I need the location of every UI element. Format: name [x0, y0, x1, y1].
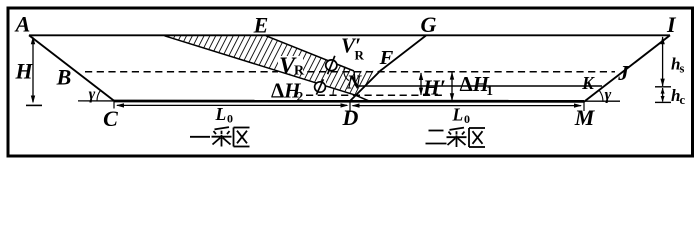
svg-text:F: F: [379, 47, 394, 69]
dimension H' arrow: [420, 73, 422, 95]
svg-text:γ: γ: [89, 86, 96, 103]
svg-text:H: H: [14, 59, 33, 84]
tick hs/hc: [655, 86, 671, 88]
long dashed line: [85, 71, 615, 73]
seam thin line: [78, 100, 620, 102]
hatch upper boundary line E: [266, 36, 354, 71]
label phi lower (drawn): [315, 79, 326, 94]
white boxes under labels: [278, 56, 337, 91]
svg-text:s: s: [680, 62, 685, 76]
svg-text:ΔH: ΔH: [460, 72, 490, 96]
short dashed line: [306, 94, 446, 96]
hatched zone polygon: [165, 36, 381, 95]
svg-text:c: c: [680, 93, 686, 107]
dimension L0 first: [117, 104, 347, 106]
svg-text:0: 0: [464, 112, 470, 126]
svg-text:M: M: [574, 105, 596, 130]
segment to N: [354, 71, 356, 86]
dimension dH1 arrow: [451, 73, 453, 101]
tick at C: [113, 101, 115, 109]
label er-cai-qu (second mining area) drawn strokes: [426, 128, 486, 147]
seam thick line C-M: [114, 100, 584, 103]
svg-text:L: L: [452, 105, 464, 125]
svg-text:N: N: [346, 72, 363, 94]
slope line I-M: [584, 35, 670, 102]
hatch lower boundary line: [165, 36, 370, 101]
angle arc gamma at C: [97, 90, 101, 100]
tick below H: [26, 104, 42, 106]
svg-text:E: E: [253, 13, 269, 38]
angle arc phi upper: [344, 67, 349, 81]
svg-text:2: 2: [297, 89, 304, 104]
label phi upper (drawn): [326, 56, 337, 74]
thin line N-K: [356, 85, 603, 87]
dimension L0 second: [353, 105, 582, 107]
angle arc phi lower: [333, 89, 334, 96]
svg-text:J: J: [617, 61, 630, 85]
svg-text:0: 0: [227, 112, 233, 126]
svg-text:γ: γ: [605, 87, 612, 104]
label yi-cai-qu (first mining area) drawn strokes: [190, 127, 250, 146]
svg-text:H′: H′: [422, 76, 446, 100]
dimension H: [32, 38, 34, 102]
tick at M: [583, 102, 585, 111]
svg-text:D: D: [342, 105, 359, 130]
svg-text:A: A: [14, 11, 31, 36]
dimension h_c: [662, 88, 664, 102]
border frame: [8, 8, 693, 156]
slope line A-C: [29, 35, 114, 101]
tick at D: [349, 101, 351, 112]
tick hc bottom: [655, 101, 671, 103]
surface line A-I: [29, 34, 670, 36]
angle arc gamma at M: [599, 90, 603, 102]
svg-text:C: C: [103, 106, 118, 131]
svg-text:I: I: [666, 12, 677, 37]
svg-text:R: R: [294, 64, 305, 79]
svg-text:R: R: [355, 47, 365, 62]
svg-text:B: B: [56, 65, 72, 90]
svg-text:L: L: [215, 104, 227, 124]
svg-text:G: G: [421, 12, 437, 37]
svg-text:K: K: [581, 73, 595, 93]
svg-text:1: 1: [486, 83, 493, 98]
line G-F-D: [350, 36, 426, 102]
dimension h_s: [662, 37, 664, 86]
